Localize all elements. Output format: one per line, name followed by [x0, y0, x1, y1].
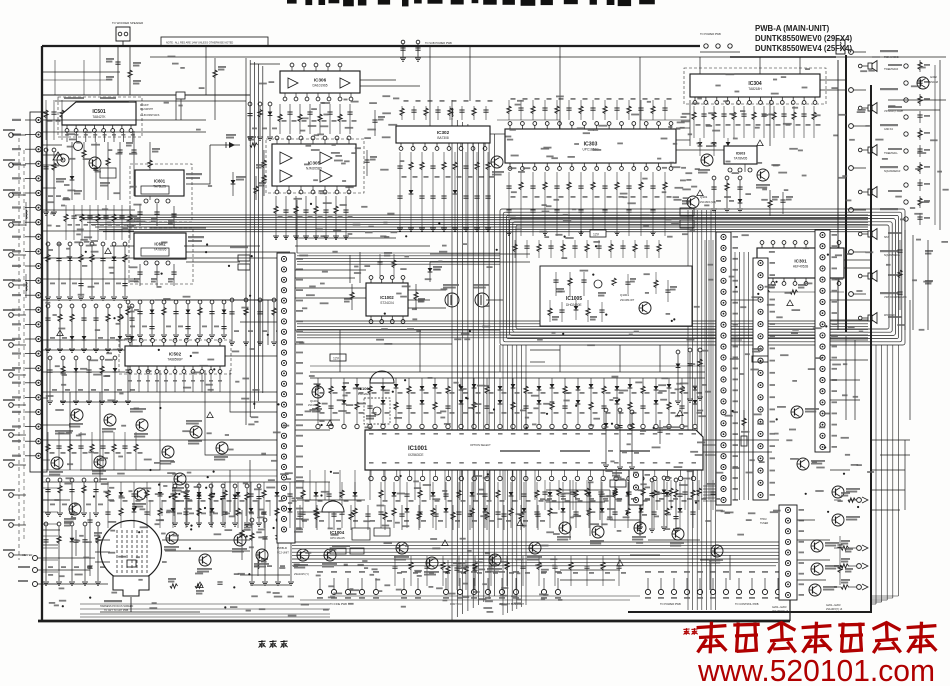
wire: [830, 379, 860, 381]
label 12V 2: [330, 354, 346, 361]
transistor Q604: [69, 409, 83, 428]
transistor Q1009: [487, 554, 502, 573]
wire drops below IC1001: [310, 470, 535, 500]
svg-text:TO WOOFER SPEAKER: TO WOOFER SPEAKER: [112, 21, 143, 25]
wire: [186, 145, 210, 184]
audio IC1004: [322, 501, 345, 540]
resistor R545: [254, 176, 266, 200]
component column far right: [904, 60, 930, 225]
capacitor C1007: [665, 280, 677, 302]
wire: [359, 252, 361, 283]
svg-text:SQUAWKER-R: SQUAWKER-R: [884, 170, 901, 173]
wire: [639, 480, 641, 536]
svg-text:TO POWER PWB: TO POWER PWB: [660, 602, 681, 606]
wire: [486, 299, 503, 301]
wire: [42, 371, 125, 373]
wire dashed left margin: [19, 138, 24, 560]
wire LAST PG-TAKE: [186, 246, 290, 270]
connector far-left pads: [3, 129, 26, 557]
wire: [619, 345, 621, 372]
wire: [42, 397, 48, 399]
cropped title text: [287, 0, 655, 6]
transistor Q1013: [164, 532, 179, 551]
wire: [240, 574, 290, 576]
IC1001 bottom pins: [369, 470, 696, 481]
label speaker texts: [884, 56, 907, 317]
connector P801: [629, 470, 650, 505]
transistor Q1005: [394, 542, 409, 561]
capacitor C1017: [657, 420, 671, 444]
wire: [41, 45, 43, 47]
wire: [530, 361, 545, 363]
wire comb bus: [310, 377, 705, 379]
component bank left of CRT low: [43, 522, 105, 585]
svg-text:G302: G302: [930, 75, 937, 79]
component bank IC301: [757, 284, 844, 294]
wire: [42, 187, 56, 189]
diode bank IC304: [698, 138, 731, 156]
component bank IC603: [711, 176, 743, 212]
wire: [42, 459, 50, 461]
label IC501 pins: [64, 97, 160, 117]
svg-text:TUNER: TUNER: [760, 522, 769, 525]
svg-text:THRU: THRU: [760, 518, 767, 521]
wire: [676, 127, 690, 129]
component bank IC306-IC305: [278, 104, 357, 134]
wire bundle vertical center2: [503, 345, 526, 615]
connector bottom pads: [317, 571, 561, 606]
wire main B+ bus: [42, 45, 700, 47]
wire bundle left of S2: [705, 240, 713, 500]
transistor Q1006: [232, 534, 247, 553]
transistor Q1003: [557, 522, 571, 541]
capacitor C940: [106, 46, 141, 95]
svg-text:DUNTK8550WEV4 (25FX4): DUNTK8550WEV4 (25FX4): [755, 44, 852, 53]
resistor bank IC1002: [344, 284, 425, 310]
watermark www.520101.com: [697, 653, 935, 686]
component bank above IC303: [507, 98, 672, 120]
component bank IC306 left: [247, 102, 277, 140]
wire: [659, 345, 661, 372]
svg-text:GND K2: GND K2: [884, 128, 894, 131]
svg-text:TWEETER-L: TWEETER-L: [884, 152, 898, 155]
wire: [909, 300, 911, 420]
wire: [42, 144, 62, 146]
wire IC501 pin drops: [65, 131, 135, 142]
wire: [69, 392, 71, 470]
wire: [904, 440, 906, 510]
wire: [854, 340, 856, 420]
op-amp IC305: [272, 136, 356, 194]
wire: [295, 237, 396, 239]
wire: [205, 46, 207, 95]
component bank below IC305: [273, 196, 353, 240]
label G201-G203: [826, 603, 843, 611]
wire: [830, 469, 850, 471]
wire: [295, 429, 330, 431]
label IC601: [186, 173, 202, 179]
wire: [295, 269, 366, 271]
connector S4: [815, 230, 837, 452]
wire: [42, 481, 100, 483]
op-amp IC306: [280, 63, 360, 101]
svg-text:IC502: IC502: [169, 352, 182, 357]
svg-text:TA8859BP: TA8859BP: [167, 358, 182, 362]
wire: [799, 57, 801, 74]
wire: [130, 597, 132, 612]
svg-text:DUNTK8550WEV0 (29FX4): DUNTK8550WEV0 (29FX4): [755, 34, 852, 43]
wire: [42, 278, 135, 280]
wire: [560, 579, 615, 581]
component bank IC302: [397, 152, 495, 232]
wire: [648, 539, 700, 541]
component comb below IC1001: [105, 482, 699, 528]
coil L901: [258, 552, 268, 576]
wire: [38, 569, 90, 571]
wire: [225, 355, 277, 357]
wire: [408, 307, 446, 309]
wire drops left bottom: [150, 500, 282, 516]
wire: [42, 499, 70, 501]
wire: [797, 519, 815, 521]
wire: [296, 200, 298, 253]
mosfet Q1010: [443, 284, 459, 307]
label CRT: [100, 600, 133, 612]
capacitor bank IC601/602: [134, 204, 177, 286]
wire: [360, 79, 396, 81]
wire IC502 pin drops: [128, 374, 222, 392]
label 主电路: [258, 640, 287, 648]
transistor D601: [214, 442, 228, 461]
wire: [214, 95, 216, 120]
wire corner TL: [42, 46, 120, 95]
wire: [830, 399, 860, 401]
resistor R528: [248, 136, 258, 147]
svg-text:VCJ-UNIT: VCJ-UNIT: [277, 551, 289, 555]
note box: [161, 37, 268, 46]
regulator IC601: [135, 170, 184, 203]
svg-text:G201--G203: G201--G203: [772, 605, 787, 609]
capacitor C509: [126, 131, 137, 196]
wire: [630, 554, 660, 556]
wire: [55, 100, 246, 102]
svg-text:TA78L25: TA78L25: [153, 185, 166, 189]
component bank right of CRT: [172, 484, 266, 526]
svg-text:TA8218H: TA8218H: [748, 87, 762, 91]
component bank left-mid: [45, 242, 128, 300]
svg-text:ST24C04: ST24C04: [380, 301, 394, 305]
capacitor C334: [780, 192, 793, 214]
wire: [155, 299, 277, 301]
wire: [297, 499, 365, 501]
connector to woofer speaker: [112, 21, 143, 46]
wire: [830, 339, 868, 341]
wire: [703, 444, 716, 446]
wire: [297, 511, 340, 513]
component IC1003 aux: [364, 398, 390, 424]
connector S3: [753, 258, 775, 500]
transistor Q1016: [632, 522, 646, 541]
transistor Q203: [809, 584, 838, 596]
transistor Q604a: [698, 154, 713, 174]
mosfet Q1009: [473, 284, 489, 307]
component IC1004 aux: [330, 528, 390, 554]
dashed region IC601: [130, 164, 192, 222]
transistor Q202: [811, 563, 840, 575]
wire: [871, 509, 900, 511]
svg-text:2SC 18: 2SC 18: [930, 81, 939, 84]
resistor R930: [240, 510, 252, 560]
component bank IC1005 interior: [548, 272, 658, 322]
wire: [38, 583, 108, 585]
dashed region IC501: [58, 97, 142, 137]
wire: [880, 454, 910, 456]
right section border: [628, 85, 871, 612]
wire: [759, 57, 761, 74]
component bank left 440s: [46, 432, 143, 470]
wire: [820, 79, 846, 81]
reset IC1003: [358, 371, 394, 396]
svg-text:OPTION SELECT: OPTION SELECT: [470, 443, 491, 447]
wire: [42, 349, 125, 351]
svg-text:TO SUB POWER PWB: TO SUB POWER PWB: [425, 41, 452, 45]
wire: [42, 299, 280, 301]
wire: [845, 336, 847, 420]
dashed region IC502: [119, 340, 231, 374]
deflection IC502: [125, 339, 225, 374]
svg-text:UPC16L05: UPC16L05: [330, 536, 345, 540]
wire: [844, 267, 871, 269]
component bank below CRT: [168, 578, 223, 595]
wire: [42, 164, 56, 166]
coil L302: [452, 100, 453, 120]
svg-text:TA78M05: TA78M05: [734, 157, 748, 161]
component bank far-left under IC501: [43, 148, 61, 215]
wire: [184, 245, 260, 247]
svg-text:IC1005: IC1005: [566, 296, 582, 302]
label box: [610, 472, 626, 487]
resistor out bank right: [834, 492, 868, 590]
connector S5 tuner: [772, 505, 804, 613]
component bank far right bottom: [837, 536, 853, 585]
svg-text:PWB-D: PWB-D: [277, 546, 288, 550]
wire: [639, 57, 641, 129]
dashed region IC304: [684, 68, 826, 104]
label MAIN/TUNE: [752, 348, 768, 362]
wire: [150, 227, 206, 229]
wire: [267, 300, 269, 345]
wire: [259, 300, 261, 345]
wire bundle vertical center: [452, 118, 494, 620]
transistor Q901: [294, 549, 309, 576]
connector to power pwb: [700, 32, 740, 52]
wire: [905, 60, 940, 330]
wire: [408, 299, 430, 301]
svg-text:IC302: IC302: [437, 130, 450, 135]
component bank CRT right: [249, 518, 298, 585]
wire: [295, 297, 366, 299]
connector PWB-D VCJ-UNIT: [277, 253, 303, 555]
resistor R334: [768, 190, 779, 216]
svg-text:IC1002: IC1002: [380, 295, 394, 300]
wire: [769, 100, 771, 146]
wire: [249, 460, 251, 510]
wire bus right tail: [730, 56, 836, 58]
wire bundle strips AB: [735, 252, 749, 500]
transistor Q1011: [424, 557, 439, 576]
svg-text:IC603: IC603: [736, 152, 746, 156]
transistor Q204: [832, 514, 861, 526]
warning marks: [57, 140, 793, 588]
transistor Q903: [64, 503, 81, 523]
wire: [175, 99, 177, 120]
transistor Q1007: [527, 542, 542, 561]
title PWB-A (MAIN-UNIT): [755, 24, 830, 33]
wire: [295, 329, 500, 331]
label cluster: [55, 408, 202, 435]
wire: [872, 56, 946, 58]
svg-text:G201--G203: G201--G203: [826, 603, 841, 607]
wire: [165, 550, 250, 552]
wire: [230, 370, 290, 412]
component bank left of CRT: [45, 478, 103, 516]
wire: [240, 321, 277, 323]
diode comb above IC1001: [316, 378, 702, 429]
wire: [569, 480, 571, 540]
wire: [676, 139, 690, 141]
component bank above IC502: [125, 300, 227, 338]
transistor Q201: [811, 540, 840, 552]
transistor Q1010: [322, 549, 337, 568]
svg-text:IX2563CE: IX2563CE: [408, 453, 424, 457]
wire: [731, 339, 742, 341]
wire: [429, 46, 431, 126]
capacitor C340: [742, 150, 755, 172]
component bank above IC1002: [377, 252, 396, 276]
wire: [703, 451, 772, 453]
wire: [546, 489, 610, 491]
switch IC301: [757, 241, 844, 286]
svg-text:SP2: SP2: [884, 236, 889, 239]
transistor Q302b: [917, 75, 939, 89]
wire: [689, 100, 691, 146]
wire: [430, 261, 530, 263]
svg-text:FOR YOU: FOR YOU: [450, 602, 462, 606]
chroma IC303: [505, 122, 676, 171]
component bank right margin: [897, 240, 933, 310]
wire speaker feed: [845, 55, 847, 332]
svg-text:TWEETER-R: TWEETER-R: [884, 68, 898, 71]
wire: [408, 289, 446, 291]
wire: [295, 419, 340, 421]
wire comb bus2b: [310, 365, 705, 367]
wire: [42, 424, 70, 426]
wire rows bottom center: [300, 596, 640, 600]
wire: [844, 259, 871, 261]
transistor Q301: [687, 195, 717, 208]
diode D1010: [428, 262, 442, 282]
svg-text:TA8427K: TA8427K: [92, 115, 106, 119]
wire: [871, 489, 905, 491]
svg-text:MOUNT: MOUNT: [140, 104, 149, 107]
audio IC304: [690, 74, 820, 104]
wire comb bus2: [310, 371, 705, 373]
svg-text:TO CRT TO CRT PWB: TO CRT TO CRT PWB: [104, 609, 129, 612]
wire: [589, 482, 591, 536]
regulator IC602: [134, 233, 186, 265]
transistor Q1002: [308, 386, 324, 413]
wire: [640, 119, 690, 121]
wire bundle outside border: [872, 345, 898, 604]
wire: [559, 345, 561, 372]
component bank S3 side: [675, 348, 707, 404]
wire: [469, 46, 471, 101]
speakers right column: [849, 50, 902, 324]
wire: [42, 209, 135, 211]
resistor R213: [741, 410, 747, 446]
component bank right of IC502: [229, 298, 281, 345]
coil left margin: [26, 202, 27, 298]
label IC602: [188, 236, 204, 242]
svg-text:NOTE : ALL RES ARE 1/4W UNLESS: NOTE : ALL RES ARE 1/4W UNLESS OTHERWISE…: [166, 42, 233, 45]
wire: [42, 439, 290, 441]
wire: [797, 559, 830, 561]
wire: [872, 439, 910, 441]
wire: [42, 94, 250, 96]
wire: [797, 539, 830, 541]
svg-text:RG-54P2TH: RG-54P2TH: [140, 108, 153, 111]
wire: [42, 230, 134, 232]
wire rows under CRT: [80, 604, 330, 617]
watermark 家电维修资料网: [697, 622, 937, 654]
svg-text:F906 CHOKE: F906 CHOKE: [884, 56, 899, 59]
wire: [360, 85, 420, 87]
svg-text:PWB-A (MAIN-UNIT): PWB-A (MAIN-UNIT): [755, 24, 830, 33]
op-amp IC501: [62, 102, 136, 132]
transistor Q205: [832, 486, 861, 498]
svg-text:2SA1015(Y) x3: 2SA1015(Y) x3: [826, 608, 843, 611]
wire: [709, 560, 711, 590]
heater connector: [18, 553, 38, 587]
diode D612: [231, 172, 246, 196]
svg-text:LA-8COSMT14FS: LA-8COSMT14FS: [140, 114, 160, 117]
title DUNTK8550WEV0: [755, 34, 852, 43]
svg-text:TO POWER PWB: TO POWER PWB: [700, 32, 721, 36]
svg-text:12V: 12V: [333, 357, 340, 361]
svg-text:Q1002: Q1002: [310, 399, 319, 403]
wire: [499, 345, 501, 372]
wire: [830, 299, 871, 301]
wire: [250, 584, 290, 586]
component row below IC1001 right: [542, 480, 720, 510]
wire: [150, 94, 176, 96]
wire: [349, 255, 351, 283]
wire: [559, 46, 561, 129]
system control IC1001: [365, 430, 703, 470]
svg-text:IC306: IC306: [314, 78, 327, 83]
wire: [295, 245, 430, 247]
wire: [820, 89, 846, 91]
wire stubs left edge low: [42, 488, 58, 584]
component bank under IC501 2: [64, 205, 136, 240]
transistor Q1014: [590, 526, 604, 545]
wire: [185, 94, 246, 96]
svg-text:TO FINE PWB: TO FINE PWB: [330, 602, 347, 606]
wire: [162, 539, 250, 541]
wire: [705, 454, 716, 456]
wire: [419, 330, 421, 372]
wire bundle horizontal upper: [75, 215, 868, 232]
